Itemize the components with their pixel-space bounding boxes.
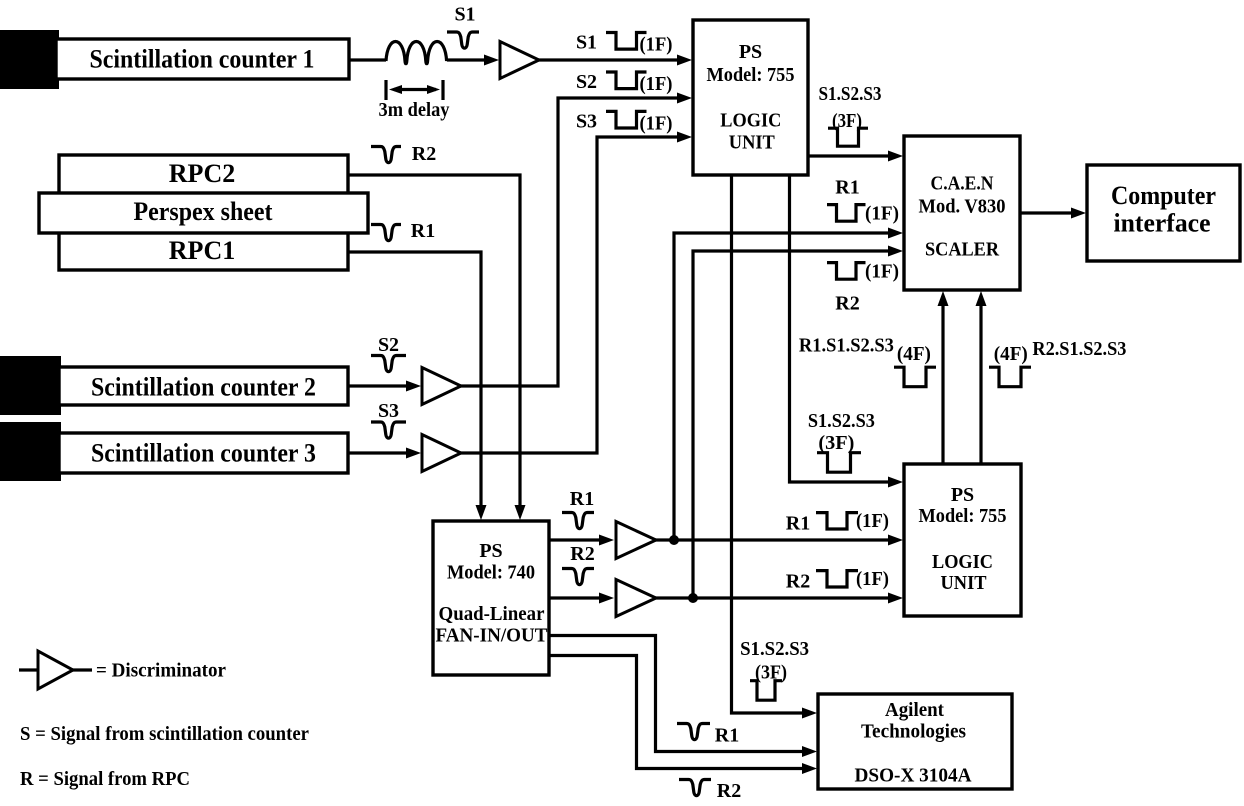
wire R2 to scaler	[693, 246, 903, 599]
label S3 above counter 3 output	[378, 400, 399, 422]
label S1.S2.S3 at U2 input	[808, 410, 875, 432]
svg-text:S1.S2.S3: S1.S2.S3	[740, 638, 809, 660]
svg-text:R1: R1	[835, 177, 859, 199]
label = Discriminator	[96, 660, 226, 682]
svg-text:S2: S2	[378, 334, 399, 356]
analog pulse symbol S3	[371, 422, 406, 438]
label R1 at scaler input	[835, 177, 859, 199]
label S1 at delay output	[454, 3, 475, 25]
svg-text:(1F): (1F)	[640, 73, 673, 95]
label (1F) of scaler R1	[865, 203, 899, 225]
digital pulse symbol S1.S2.S3 (3F) at U2	[817, 453, 861, 473]
svg-text:Agilent: Agilent	[885, 699, 944, 721]
svg-text:R = Signal from RPC: R = Signal from RPC	[20, 768, 190, 790]
svg-text:RPC1: RPC1	[169, 236, 235, 265]
block: Perspex sheet	[39, 193, 368, 233]
wire PS740 analog R2 to DSO	[549, 656, 817, 775]
svg-text:Model: 740: Model: 740	[447, 562, 535, 584]
wire PS740 R2 to discriminator D5	[549, 593, 614, 604]
label S1.S2.S3 at DSO input	[740, 638, 809, 660]
analog pulse symbol R1 at PS740 output	[562, 513, 594, 529]
svg-text:UNIT: UNIT	[941, 572, 988, 594]
delay coil 3m	[386, 42, 447, 64]
wire delay to discriminator D1	[447, 55, 499, 66]
block: Scintillation counter 2	[59, 367, 348, 405]
svg-text:Scintillation counter 3: Scintillation counter 3	[91, 439, 316, 468]
svg-text:R1: R1	[715, 725, 739, 747]
digital pulse symbol S1.S2.S3 (3F)	[828, 128, 868, 146]
junction node R1	[669, 535, 679, 545]
svg-text:DSO-X 3104A: DSO-X 3104A	[855, 765, 973, 787]
svg-text:(4F): (4F)	[994, 343, 1028, 365]
wire PS740 R1 to discriminator D4	[549, 535, 614, 546]
svg-text:(1F): (1F)	[640, 34, 673, 56]
digital pulse symbol R1 (1F) at U2	[816, 513, 858, 529]
svg-text:Model: 755: Model: 755	[707, 64, 795, 86]
legend discriminator input wire	[19, 668, 38, 671]
block: PS Model 740 quad-linear fan-in/out	[433, 521, 549, 675]
discriminator D1	[500, 42, 539, 79]
label R1 at RPC1 output	[411, 220, 435, 242]
wire counter 2 to discriminator D2	[348, 381, 421, 392]
svg-text:S1.S2.S3: S1.S2.S3	[819, 83, 882, 105]
svg-text:Scintillation counter 1: Scintillation counter 1	[90, 45, 315, 74]
svg-text:UNIT: UNIT	[729, 132, 776, 154]
label (3F) at U2 input	[818, 432, 854, 454]
junction node R2	[688, 593, 698, 603]
wire scaler to computer interface	[1020, 208, 1086, 219]
label (1F) of S1	[640, 34, 673, 56]
label (1F) of U2 R2	[856, 568, 889, 590]
svg-text:S2: S2	[576, 71, 597, 93]
label (1F) of U2 R1	[856, 510, 889, 532]
svg-text:(3F): (3F)	[755, 662, 787, 684]
PMT black square of scintillation counter 1	[0, 30, 59, 89]
digital pulse symbol S1 (1F)	[606, 33, 647, 50]
wire U2 output R2.S1.S2.S3 up to scaler	[976, 291, 987, 464]
digital pulse symbol R1.S1.S2.S3 (4F)	[894, 367, 936, 387]
svg-text:PS: PS	[739, 41, 762, 63]
svg-text:S3: S3	[378, 400, 399, 422]
analog pulse symbol S1	[447, 32, 479, 48]
svg-text:R1: R1	[411, 220, 435, 242]
wire PS740 analog R1 to DSO	[549, 636, 817, 758]
svg-text:C.A.E.N: C.A.E.N	[931, 173, 994, 195]
svg-text:R2.S1.S2.S3: R2.S1.S2.S3	[1032, 338, 1126, 360]
PMT black square of scintillation counter 2	[0, 356, 61, 415]
legend discriminator symbol	[38, 651, 73, 689]
discriminator D5	[616, 580, 656, 617]
svg-text:(1F): (1F)	[640, 112, 673, 134]
svg-text:(1F): (1F)	[856, 510, 889, 532]
svg-text:R2: R2	[786, 571, 810, 593]
digital pulse symbol S3 (1F)	[606, 111, 647, 128]
svg-text:R2: R2	[412, 143, 436, 165]
digital pulse symbol R1 (1F) scaler	[827, 205, 866, 222]
block: CAEN V830 scaler	[904, 136, 1020, 290]
svg-text:RPC2: RPC2	[169, 159, 235, 188]
label 3m delay	[379, 99, 450, 121]
block: PS Model 755 logic unit U2	[904, 464, 1021, 616]
analog pulse symbol R1 at RPC1 output	[371, 225, 401, 241]
svg-text:(4F): (4F)	[897, 343, 931, 365]
label R2 at RPC2 output	[412, 143, 436, 165]
svg-text:LOGIC: LOGIC	[720, 110, 781, 132]
svg-text:R1: R1	[786, 512, 810, 534]
label (1F) of S2	[640, 73, 673, 95]
label R2 at scaler input	[835, 293, 859, 315]
wire counter 3 to discriminator D3	[348, 448, 421, 459]
analog pulse symbol R1 at DSO input	[677, 724, 710, 740]
svg-text:S1: S1	[576, 32, 597, 54]
label R1 at U2 input	[786, 512, 810, 534]
legend discriminator output wire	[72, 668, 92, 671]
svg-text:(1F): (1F)	[856, 568, 889, 590]
label (3F) at DSO input	[755, 662, 787, 684]
label R2.S1.S2.S3	[1032, 338, 1126, 360]
analog pulse symbol R2 at DSO input	[679, 780, 711, 796]
svg-text:(1F): (1F)	[865, 203, 899, 225]
svg-text:Model: 755: Model: 755	[919, 505, 1007, 527]
label (1F) of scaler R2	[865, 261, 899, 283]
svg-text:PS: PS	[479, 540, 502, 562]
svg-text:3m delay: 3m delay	[379, 99, 450, 121]
label (1F) of S3	[640, 112, 673, 134]
svg-text:interface: interface	[1114, 209, 1211, 238]
wire R2 from RPC2 to fan-in PS740	[348, 175, 526, 520]
wire from counter 1 to delay coil	[349, 58, 386, 61]
svg-text:FAN-IN/OUT: FAN-IN/OUT	[436, 625, 549, 647]
block: RPC1	[59, 232, 348, 270]
label (4F) left	[897, 343, 931, 365]
svg-text:S = Signal from scintillation: S = Signal from scintillation counter	[20, 723, 309, 745]
wire R1 from RPC1 to fan-in PS740	[348, 252, 487, 520]
svg-text:R1: R1	[570, 488, 594, 510]
block: Scintillation counter 1	[56, 39, 349, 79]
svg-text:S3: S3	[576, 111, 597, 133]
block: Agilent Technologies DSO-X 3104A	[818, 694, 1012, 789]
label S3 input row	[576, 111, 597, 133]
digital pulse symbol S1.S2.S3 (3F) at DSO	[750, 681, 782, 701]
label (3F) at U1 output	[832, 110, 862, 132]
digital pulse symbol R2 (1F) scaler	[827, 263, 866, 280]
label R2 at PS740 output	[570, 543, 594, 565]
label R1 at DSO input	[715, 725, 739, 747]
analog pulse symbol R2 at PS740 output	[562, 569, 594, 585]
svg-text:R2: R2	[717, 780, 741, 802]
3m delay measure double arrow	[389, 85, 440, 94]
wire R2 from D5 to U2	[654, 593, 903, 604]
label S2 input row	[576, 71, 597, 93]
svg-text:Perspex sheet: Perspex sheet	[134, 197, 273, 226]
block: PS Model 755 logic unit U1	[693, 20, 808, 175]
block: RPC2	[59, 155, 348, 194]
3m delay measure ticks	[386, 80, 443, 100]
svg-text:S1.S2.S3: S1.S2.S3	[808, 410, 875, 432]
svg-text:R2: R2	[835, 293, 859, 315]
wire U1 output to scaler	[808, 151, 903, 162]
wire R1 to scaler	[674, 228, 903, 541]
digital pulse symbol R2 (1F) at U2	[816, 571, 858, 587]
svg-text:Scintillation counter 2: Scintillation counter 2	[91, 373, 316, 402]
discriminator D4	[616, 522, 656, 559]
svg-text:PS: PS	[951, 484, 974, 506]
block: Scintillation counter 3	[59, 433, 348, 473]
discriminator D3	[422, 435, 461, 472]
wire S3 from D3 up to logic unit U1	[458, 132, 692, 454]
label R2 at U2 input	[786, 571, 810, 593]
svg-text:(1F): (1F)	[865, 261, 899, 283]
wire U2 output R1.S1.S2.S3 up to scaler	[938, 291, 949, 464]
svg-text:Mod. V830: Mod. V830	[919, 196, 1006, 218]
svg-text:R2: R2	[570, 543, 594, 565]
label S2 above counter 2 output	[378, 334, 399, 356]
wire R1 from D4 to U2	[654, 535, 903, 546]
wire U1 bottom to logic unit U2 (S1.S2.S3 3F)	[790, 175, 904, 488]
discriminator D2	[422, 368, 461, 405]
svg-text:R1.S1.S2.S3: R1.S1.S2.S3	[799, 335, 894, 357]
label R1 at PS740 output	[570, 488, 594, 510]
label S1 input row	[576, 32, 597, 54]
svg-text:Computer: Computer	[1111, 181, 1216, 210]
svg-text:LOGIC: LOGIC	[932, 551, 993, 573]
wire U1 bottom to DSO (S1.S2.S3 3F)	[732, 175, 818, 719]
svg-text:Technologies: Technologies	[861, 721, 966, 743]
block: Computer interface	[1087, 165, 1240, 261]
label R2 at DSO input	[717, 780, 741, 802]
svg-text:= Discriminator: = Discriminator	[96, 660, 226, 682]
wire S2 from D2 up to logic unit U1	[458, 93, 692, 387]
analog pulse symbol S2	[371, 356, 406, 372]
analog pulse symbol R2 at RPC2 output	[371, 147, 401, 163]
digital pulse symbol S2 (1F)	[606, 72, 647, 89]
label R = Signal from RPC	[20, 768, 190, 790]
label R1.S1.S2.S3	[799, 335, 894, 357]
svg-text:S1: S1	[454, 3, 475, 25]
label S = Signal from scintillation counter	[20, 723, 309, 745]
label S1.S2.S3 at U1 output	[819, 83, 882, 105]
digital pulse symbol R2.S1.S2.S3 (4F)	[989, 367, 1031, 387]
label (4F) right	[994, 343, 1028, 365]
svg-text:Quad-Linear: Quad-Linear	[439, 603, 545, 625]
svg-text:SCALER: SCALER	[925, 239, 1000, 261]
PMT black square of scintillation counter 3	[0, 422, 61, 481]
wire S1 from D1 to logic unit U1	[536, 55, 692, 66]
svg-text:(3F): (3F)	[818, 432, 854, 454]
